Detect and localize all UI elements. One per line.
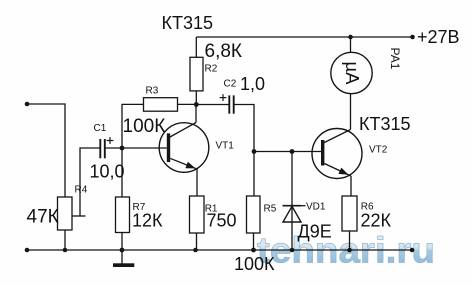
svg-text:100К: 100К [234,254,275,274]
capacitor C2 [229,95,233,113]
wire VT2 emitter lead [350,176,352,196]
ground [113,263,134,267]
wire R6 bottom lead [349,231,351,250]
node R2/R3/C2 junction [194,102,199,107]
wire R4 wiper tap [72,215,86,217]
wire VT1 base [122,147,167,149]
svg-text:КТ315: КТ315 [162,13,214,33]
svg-text:Д9Е: Д9Е [298,222,332,242]
wire C1 right lead [106,147,123,149]
svg-text:VT1: VT1 [216,141,235,152]
wire R7 top lead [121,148,123,197]
wire R4 bottom lead [64,230,66,250]
svg-text:С2: С2 [224,79,237,90]
svg-text:1,0: 1,0 [240,74,265,94]
wire R1 bottom lead [196,233,198,250]
node top rail meter junction [348,35,353,40]
svg-text:100К: 100К [123,116,166,137]
capacitor C2 plus sign [220,94,227,101]
node VD1 base junction [290,149,295,154]
svg-text:µА: µА [342,62,363,86]
node rail R4 [63,248,68,253]
svg-text:R5: R5 [264,203,277,214]
node rail R1 [193,248,198,253]
transistor VT1 [159,123,209,173]
node input terminal [25,102,30,107]
resistor R2 [190,57,203,91]
wire bottom rail [27,249,412,251]
wire input terminal to R4 [27,104,65,197]
wire VT2 base [254,151,321,153]
svg-text:РА1: РА1 [388,48,402,70]
node rail ground [120,248,125,253]
wire meter top lead [350,37,352,52]
wire R7 bottom lead [121,233,123,251]
resistor R3 [144,98,178,112]
meter PA1 [331,52,372,93]
svg-text:R2: R2 [205,64,218,75]
node A C1/R3/R7/base junction [120,146,125,151]
resistor R4 potentiometer [58,197,73,230]
node rail left end [25,248,30,253]
svg-text:10,0: 10,0 [90,162,125,182]
svg-text:750: 750 [207,211,237,231]
node rail R5 [251,248,256,253]
wire ground stem [121,250,123,264]
svg-text:6,8К: 6,8К [205,41,242,62]
svg-text:+27В: +27В [417,27,460,47]
resistor R5 [247,196,261,233]
wire R3 left lead down to node A [122,104,144,148]
svg-text:КТ315: КТ315 [359,114,411,134]
svg-text:R3: R3 [146,86,159,97]
node +27V terminal [410,35,415,40]
svg-text:VD1: VD1 [306,202,326,213]
svg-text:VT2: VT2 [369,145,388,156]
wire R2 top lead [195,37,197,57]
wire R2 bottom lead [195,91,197,105]
transistor VT2 [312,129,362,179]
wire R5 bottom lead [253,233,255,250]
wire VT1 collector lead [195,105,197,123]
wire C2 right lead down to node B [234,105,254,197]
wire C2 left lead [196,104,229,106]
wire VT1 emitter lead [196,169,198,196]
svg-text:47К: 47К [27,207,59,228]
diode VD1 [283,206,302,222]
svg-text:R4: R4 [75,185,88,196]
svg-text:12К: 12К [132,210,163,230]
capacitor C1 plus sign [107,137,114,144]
wire VT2 collector lead to meter [350,94,352,130]
capacitor C1 [100,139,105,158]
resistor R7 [116,197,130,233]
wire top rail +27V [196,36,412,38]
node rail R6 [347,248,352,253]
wire C1 left lead to R4 wiper [80,148,100,216]
node rail VD1 [290,248,295,253]
svg-text:C1: C1 [94,123,107,134]
node B C2/R5/base junction [252,149,257,154]
svg-text:22К: 22К [361,210,392,230]
resistor R1 [190,196,205,233]
wire R3 right lead [178,103,197,105]
node rail right end [410,248,415,253]
wire VD1 branch [291,152,293,251]
wire VD1 label tick [301,205,306,207]
resistor R6 [342,196,357,231]
